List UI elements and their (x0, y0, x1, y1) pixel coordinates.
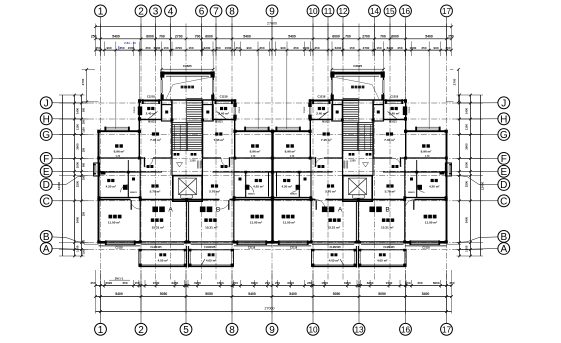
svg-text:E: E (500, 167, 507, 178)
svg-text:M1021: M1021 (322, 121, 330, 124)
unit U2 dining rooms (386, 132, 389, 135)
unit U1 middle band bath A (98, 158, 100, 200)
svg-text:8.96 m²: 8.96 m² (285, 150, 296, 154)
unit U2 stair lobby (366, 153, 369, 156)
svg-text:13: 13 (354, 325, 364, 334)
svg-text:C: C (500, 196, 507, 207)
svg-text:5: 5 (183, 325, 189, 336)
svg-text:12400: 12400 (481, 181, 485, 190)
svg-text:15.31 m²: 15.31 m² (381, 226, 393, 230)
svg-text:C2118: C2118 (290, 246, 298, 249)
svg-text:1100: 1100 (75, 124, 79, 131)
unit U1 dining rooms (152, 132, 155, 135)
svg-text:250: 250 (83, 147, 86, 152)
svg-text:900: 900 (433, 46, 438, 50)
svg-text:M0821: M0821 (408, 192, 415, 194)
svg-text:M0821: M0821 (130, 192, 137, 194)
svg-text:1400: 1400 (464, 107, 468, 114)
svg-text:B: B (385, 207, 390, 214)
svg-text:250: 250 (83, 211, 86, 216)
svg-text:M1021: M1021 (215, 121, 223, 124)
svg-text:1500: 1500 (225, 46, 232, 50)
svg-text:C2118: C2118 (248, 246, 256, 249)
unit U2 stair terrace (332, 72, 384, 100)
svg-text:C0915: C0915 (304, 106, 306, 113)
svg-text:900: 900 (83, 107, 86, 112)
unit U2 kitchen A block (384, 100, 406, 119)
svg-text:5050: 5050 (378, 292, 386, 296)
svg-text:12: 12 (338, 7, 348, 16)
unit U2 stair shaft (372, 100, 374, 158)
unit U2 door arcs (405, 200, 415, 210)
svg-text:B: B (216, 207, 221, 214)
unit U1 terrace dim C3625 (162, 68, 214, 70)
svg-text:1400: 1400 (75, 107, 79, 114)
svg-text:1.500: 1.500 (190, 160, 197, 163)
svg-text:250: 250 (215, 46, 220, 50)
svg-text:250: 250 (83, 119, 86, 124)
svg-text:250: 250 (90, 281, 95, 285)
left dimension lines (62, 95, 64, 256)
right axis circles (498, 97, 510, 109)
svg-text:250: 250 (83, 175, 86, 180)
svg-text:6200: 6200 (204, 46, 211, 50)
svg-text:2.40 m²: 2.40 m² (389, 112, 399, 116)
axis grid lines (88, 55, 457, 281)
unit U1 north bedroom B (235, 130, 273, 132)
unit U1 middle band bath B (233, 158, 235, 172)
svg-text:250: 250 (293, 46, 298, 50)
svg-text:1000: 1000 (464, 161, 468, 168)
svg-text:FLM2425: FLM2425 (330, 245, 342, 249)
unit U1 stair lobby (174, 153, 177, 156)
svg-text:17: 17 (442, 7, 452, 16)
svg-text:15.31 m²: 15.31 m² (328, 226, 340, 230)
svg-text:11.00 m²: 11.00 m² (425, 220, 437, 224)
unit U1 room labels south (109, 215, 113, 219)
unit U2 kitchen B block (310, 100, 332, 119)
svg-text:M0821: M0821 (290, 194, 297, 196)
svg-text:7.45 m²: 7.45 m² (384, 138, 395, 142)
svg-text:8.96 m²: 8.96 m² (421, 150, 432, 154)
svg-text:2.40 m²: 2.40 m² (316, 112, 326, 116)
svg-text:H: H (43, 114, 50, 125)
svg-text:10: 10 (308, 325, 318, 334)
svg-text:C3625: C3625 (353, 64, 362, 68)
top axis circles (95, 5, 107, 17)
svg-text:1500: 1500 (386, 281, 393, 285)
svg-text:1000: 1000 (75, 161, 79, 168)
svg-text:7: 7 (213, 7, 219, 18)
svg-text:27000: 27000 (265, 307, 275, 311)
svg-text:2.81 - 10: 2.81 - 10 (124, 41, 136, 45)
svg-text:7.45 m²: 7.45 m² (213, 138, 224, 142)
svg-text:5.70 m²: 5.70 m² (150, 189, 161, 193)
svg-text:250: 250 (417, 281, 422, 285)
svg-text:1.70: 1.70 (251, 156, 256, 158)
svg-text:FLM2425: FLM2425 (150, 245, 162, 249)
svg-text:6200: 6200 (335, 46, 342, 50)
svg-text:4.05 m²: 4.05 m² (158, 259, 168, 263)
unit U1 door leaves (144, 157, 146, 167)
svg-text:4.20 m²: 4.20 m² (429, 185, 439, 189)
svg-text:B: B (500, 232, 507, 243)
unit U2 north bedroom A (406, 130, 447, 132)
unit U1 balcony doors (142, 241, 185, 243)
svg-text:2400: 2400 (464, 216, 468, 223)
unit U2 study rooms (372, 158, 374, 176)
svg-text:2900: 2900 (464, 143, 468, 150)
unit U2 stair side baths (373, 105, 384, 121)
svg-text:5400: 5400 (288, 35, 296, 39)
svg-text:150: 150 (376, 46, 381, 50)
unit U1 living north wall (99, 199, 131, 201)
svg-text:4.05 m²: 4.05 m² (377, 259, 387, 263)
svg-text:250: 250 (83, 249, 86, 254)
svg-text:5050: 5050 (333, 292, 341, 296)
svg-text:C1218: C1218 (220, 95, 228, 99)
svg-text:3: 3 (153, 7, 159, 18)
svg-text:8.96 m²: 8.96 m² (250, 150, 261, 154)
svg-text:1500: 1500 (410, 46, 417, 50)
svg-text:250: 250 (421, 46, 426, 50)
svg-text:4.05 m²: 4.05 m² (329, 259, 339, 263)
svg-text:6250: 6250 (172, 281, 179, 285)
svg-text:7.45 m²: 7.45 m² (150, 138, 161, 142)
svg-text:16: 16 (401, 325, 411, 334)
svg-text:1500: 1500 (217, 281, 224, 285)
unit U2 room labels south (424, 215, 428, 219)
svg-text:2.40 m²: 2.40 m² (218, 112, 228, 116)
svg-text:900: 900 (83, 162, 86, 167)
svg-text:250: 250 (233, 281, 238, 285)
svg-text:M1021: M1021 (148, 121, 156, 124)
svg-text:4.20 m²: 4.20 m² (106, 185, 116, 189)
svg-text:150: 150 (405, 281, 410, 285)
svg-text:C1218: C1218 (390, 95, 398, 99)
svg-text:7.45 m²: 7.45 m² (321, 138, 332, 142)
unit U2 west bay window (445, 163, 451, 176)
svg-text:5050: 5050 (160, 292, 168, 296)
svg-text:6000: 6000 (332, 35, 340, 39)
svg-text:700: 700 (345, 35, 351, 39)
top dimension lines (96, 26, 452, 28)
svg-text:250: 250 (235, 46, 240, 50)
svg-text:C0915: C0915 (134, 106, 136, 113)
svg-text:250: 250 (95, 46, 100, 50)
unit U1 stair shaft (171, 100, 173, 158)
svg-text:D: D (43, 180, 50, 191)
svg-text:C2118: C2118 (422, 246, 430, 249)
svg-text:C: C (43, 196, 50, 207)
svg-text:6000: 6000 (391, 35, 399, 39)
svg-text:FLM2425: FLM2425 (204, 245, 216, 249)
unit U2 door leaves (400, 157, 402, 167)
svg-text:250: 250 (275, 281, 280, 285)
svg-text:5400: 5400 (115, 292, 123, 296)
svg-text:5400: 5400 (422, 292, 430, 296)
unit U2 south windows (411, 240, 439, 242)
svg-text:15: 15 (385, 7, 395, 16)
svg-text:2900: 2900 (75, 143, 79, 150)
svg-text:1500: 1500 (464, 245, 468, 252)
svg-text:8: 8 (229, 7, 235, 18)
svg-text:6000: 6000 (105, 281, 112, 285)
unit U2 north bedroom B (273, 130, 311, 132)
svg-text:C0915: C0915 (239, 106, 241, 113)
svg-text:6000: 6000 (205, 35, 213, 39)
unit U2 south rooms walls (404, 200, 406, 243)
svg-text:2200: 2200 (464, 180, 468, 187)
svg-text:9: 9 (269, 325, 275, 336)
svg-text:11: 11 (324, 7, 333, 16)
svg-text:6250: 6250 (367, 281, 374, 285)
svg-text:1.70: 1.70 (116, 156, 121, 158)
svg-text:250: 250 (445, 46, 450, 50)
svg-text:150: 150 (134, 281, 139, 285)
svg-text:250: 250 (314, 46, 319, 50)
svg-text:700: 700 (159, 35, 165, 39)
svg-text:17: 17 (442, 325, 452, 334)
svg-text:700: 700 (380, 35, 386, 39)
svg-text:2: 2 (138, 7, 144, 18)
svg-text:C1218: C1218 (317, 95, 325, 99)
svg-text:6: 6 (199, 7, 205, 18)
svg-text:A: A (168, 207, 173, 214)
svg-text:F: F (43, 154, 49, 165)
svg-text:J: J (501, 98, 506, 109)
svg-text:8: 8 (229, 325, 235, 336)
svg-text:150: 150 (188, 46, 193, 50)
unit U1 stair terrace (162, 72, 214, 100)
unit U1 stair side baths (162, 105, 173, 121)
svg-text:9: 9 (269, 7, 275, 18)
svg-text:1100: 1100 (464, 124, 468, 131)
unit U1 kitchen B block (213, 100, 235, 119)
svg-text:D: D (500, 180, 507, 191)
svg-text:1.500: 1.500 (350, 160, 357, 163)
svg-text:14: 14 (370, 7, 380, 16)
svg-text:C1218: C1218 (147, 95, 155, 99)
svg-text:15.31 m²: 15.31 m² (205, 226, 217, 230)
unit U1 south rooms walls (139, 200, 141, 243)
svg-text:1500: 1500 (321, 281, 328, 285)
svg-text:250: 250 (91, 35, 97, 39)
svg-text:2700: 2700 (453, 78, 457, 85)
svg-text:150: 150 (349, 46, 354, 50)
svg-text:G: G (500, 130, 508, 141)
svg-text:A: A (338, 207, 343, 214)
svg-text:2700: 2700 (175, 35, 183, 39)
unit U1 terrace depth dim 2700 (86, 70, 88, 102)
bottom axis circles (95, 323, 107, 335)
right dimension lines (480, 95, 482, 256)
svg-text:2700: 2700 (175, 46, 182, 50)
svg-text:900: 900 (83, 239, 86, 244)
svg-text:1: 1 (98, 325, 104, 336)
svg-text:5050: 5050 (205, 292, 213, 296)
svg-text:5400: 5400 (112, 35, 120, 39)
svg-text:1500: 1500 (75, 245, 79, 252)
svg-text:900: 900 (246, 46, 251, 50)
svg-text:5400: 5400 (243, 35, 251, 39)
svg-text:250: 250 (448, 35, 454, 39)
svg-text:C2118: C2118 (115, 246, 123, 249)
svg-text:C0915: C0915 (409, 106, 411, 113)
svg-text:4: 4 (168, 7, 174, 18)
svg-text:6000: 6000 (146, 35, 154, 39)
svg-text:5.70 m²: 5.70 m² (325, 189, 336, 193)
svg-text:4.20 m²: 4.20 m² (253, 185, 263, 189)
svg-text:250: 250 (265, 281, 270, 285)
unit U1 west bay window (94, 163, 100, 176)
svg-text:5.70 m²: 5.70 m² (385, 189, 396, 193)
svg-text:2400: 2400 (75, 216, 79, 223)
svg-text:250: 250 (119, 46, 124, 50)
svg-text:10: 10 (308, 7, 318, 16)
svg-text:2700: 2700 (362, 35, 370, 39)
unit U1 entry hall (147, 165, 150, 168)
svg-text:6200: 6200 (154, 46, 161, 50)
svg-text:16: 16 (401, 7, 411, 16)
unit U1 balconies (186, 246, 188, 268)
unit U1 study rooms (171, 158, 173, 176)
svg-text:1500: 1500 (303, 46, 310, 50)
svg-text:M0821: M0821 (248, 194, 255, 196)
svg-text:700: 700 (195, 35, 201, 39)
svg-text:900: 900 (106, 46, 111, 50)
svg-text:250: 250 (145, 46, 150, 50)
svg-text:H: H (500, 114, 507, 125)
svg-text:250: 250 (397, 46, 402, 50)
long extension lines to building (161, 50, 163, 71)
svg-text:250: 250 (449, 281, 454, 285)
svg-text:JM 1-1: JM 1-1 (115, 276, 124, 280)
svg-text:900: 900 (280, 46, 285, 50)
svg-text:250: 250 (122, 281, 127, 285)
svg-text:6000: 6000 (251, 281, 258, 285)
unit U2 balconies (357, 246, 359, 268)
svg-text:6000: 6000 (433, 281, 440, 285)
svg-text:E: E (43, 167, 50, 178)
svg-text:1150: 1150 (83, 127, 86, 133)
svg-text:G: G (42, 130, 50, 141)
unit U1 north bedroom A (99, 130, 140, 132)
svg-text:M1021: M1021 (389, 121, 397, 124)
svg-text:FLM2425: FLM2425 (383, 245, 395, 249)
svg-text:1.70: 1.70 (425, 156, 430, 158)
svg-text:1.70: 1.70 (290, 156, 295, 158)
unit U1 door arcs (131, 200, 141, 210)
unit U1 kitchen A block (139, 100, 161, 119)
svg-text:J: J (44, 98, 49, 109)
svg-text:11.00 m²: 11.00 m² (283, 220, 295, 224)
unit U2 terrace depth dim 2700 (457, 70, 459, 102)
svg-text:12400: 12400 (57, 181, 61, 190)
svg-text:6250: 6250 (344, 281, 351, 285)
svg-text:F: F (501, 154, 507, 165)
unit U2 balcony doors (361, 241, 404, 243)
svg-text:1500: 1500 (153, 281, 160, 285)
svg-text:A: A (500, 244, 507, 255)
svg-text:5.70 m²: 5.70 m² (209, 189, 220, 193)
svg-text:5400: 5400 (248, 292, 256, 296)
svg-text:6200: 6200 (387, 46, 394, 50)
unit U2 middle band bath A (446, 158, 448, 200)
unit U2 elevator (343, 176, 372, 202)
svg-text:1500: 1500 (128, 46, 135, 50)
unit U1 south windows (107, 240, 135, 242)
svg-text:2200: 2200 (75, 180, 79, 187)
svg-text:6250: 6250 (194, 281, 201, 285)
svg-text:1: 1 (98, 7, 104, 18)
svg-text:A: A (43, 244, 50, 255)
svg-text:2700: 2700 (81, 78, 85, 85)
svg-text:5400: 5400 (425, 35, 433, 39)
unit U2 living north wall (415, 199, 447, 201)
left axis circles (40, 97, 52, 109)
unit U1 elevator (173, 176, 202, 202)
unit U2 terrace dim C3625 (332, 68, 384, 70)
svg-text:C3625: C3625 (183, 64, 192, 68)
svg-text:8.96 m²: 8.96 m² (114, 150, 125, 154)
svg-text:2: 2 (138, 325, 144, 336)
svg-text:250: 250 (259, 46, 264, 50)
bottom dimension lines (96, 285, 452, 287)
svg-text:2700: 2700 (363, 46, 370, 50)
svg-text:4.05 m²: 4.05 m² (206, 259, 216, 263)
svg-text:11.00 m²: 11.00 m² (250, 220, 262, 224)
svg-text:15.31 m²: 15.31 m² (152, 226, 164, 230)
svg-text:6000: 6000 (287, 281, 294, 285)
svg-text:B: B (43, 232, 50, 243)
svg-text:11.00 m²: 11.00 m² (108, 220, 120, 224)
svg-text:4.20 m²: 4.20 m² (282, 185, 292, 189)
unit U2 middle band bath B (310, 158, 312, 172)
svg-text:150: 150 (163, 46, 168, 50)
svg-text:5400: 5400 (289, 292, 297, 296)
unit U2 entry hall (392, 165, 395, 168)
svg-text:250: 250 (307, 281, 312, 285)
svg-text:2.40 m²: 2.40 m² (146, 112, 156, 116)
